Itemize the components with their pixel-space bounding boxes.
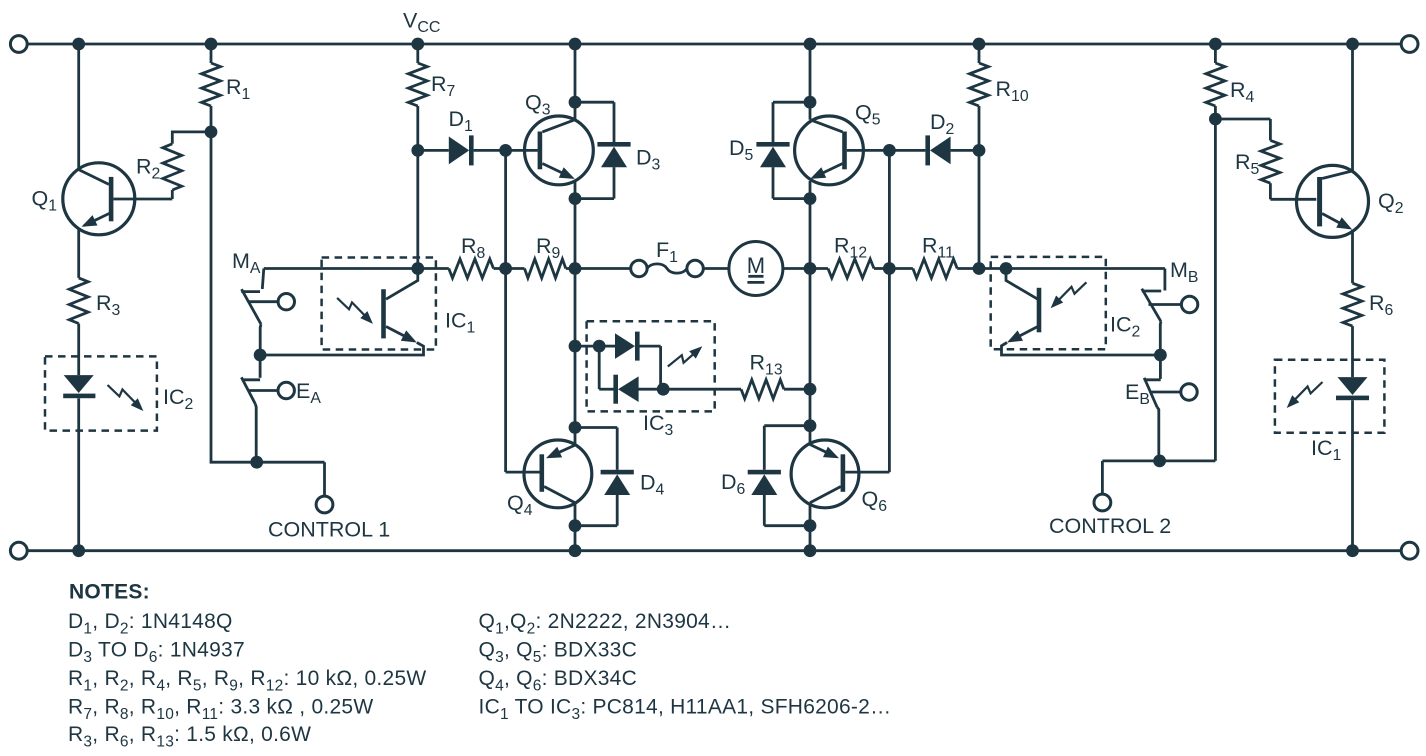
svg-text:M: M — [747, 253, 765, 278]
svg-text:CONTROL 1: CONTROL 1 — [268, 518, 390, 542]
svg-text:NOTES:: NOTES: — [69, 581, 150, 604]
svg-text:CONTROL 2: CONTROL 2 — [1049, 514, 1171, 538]
